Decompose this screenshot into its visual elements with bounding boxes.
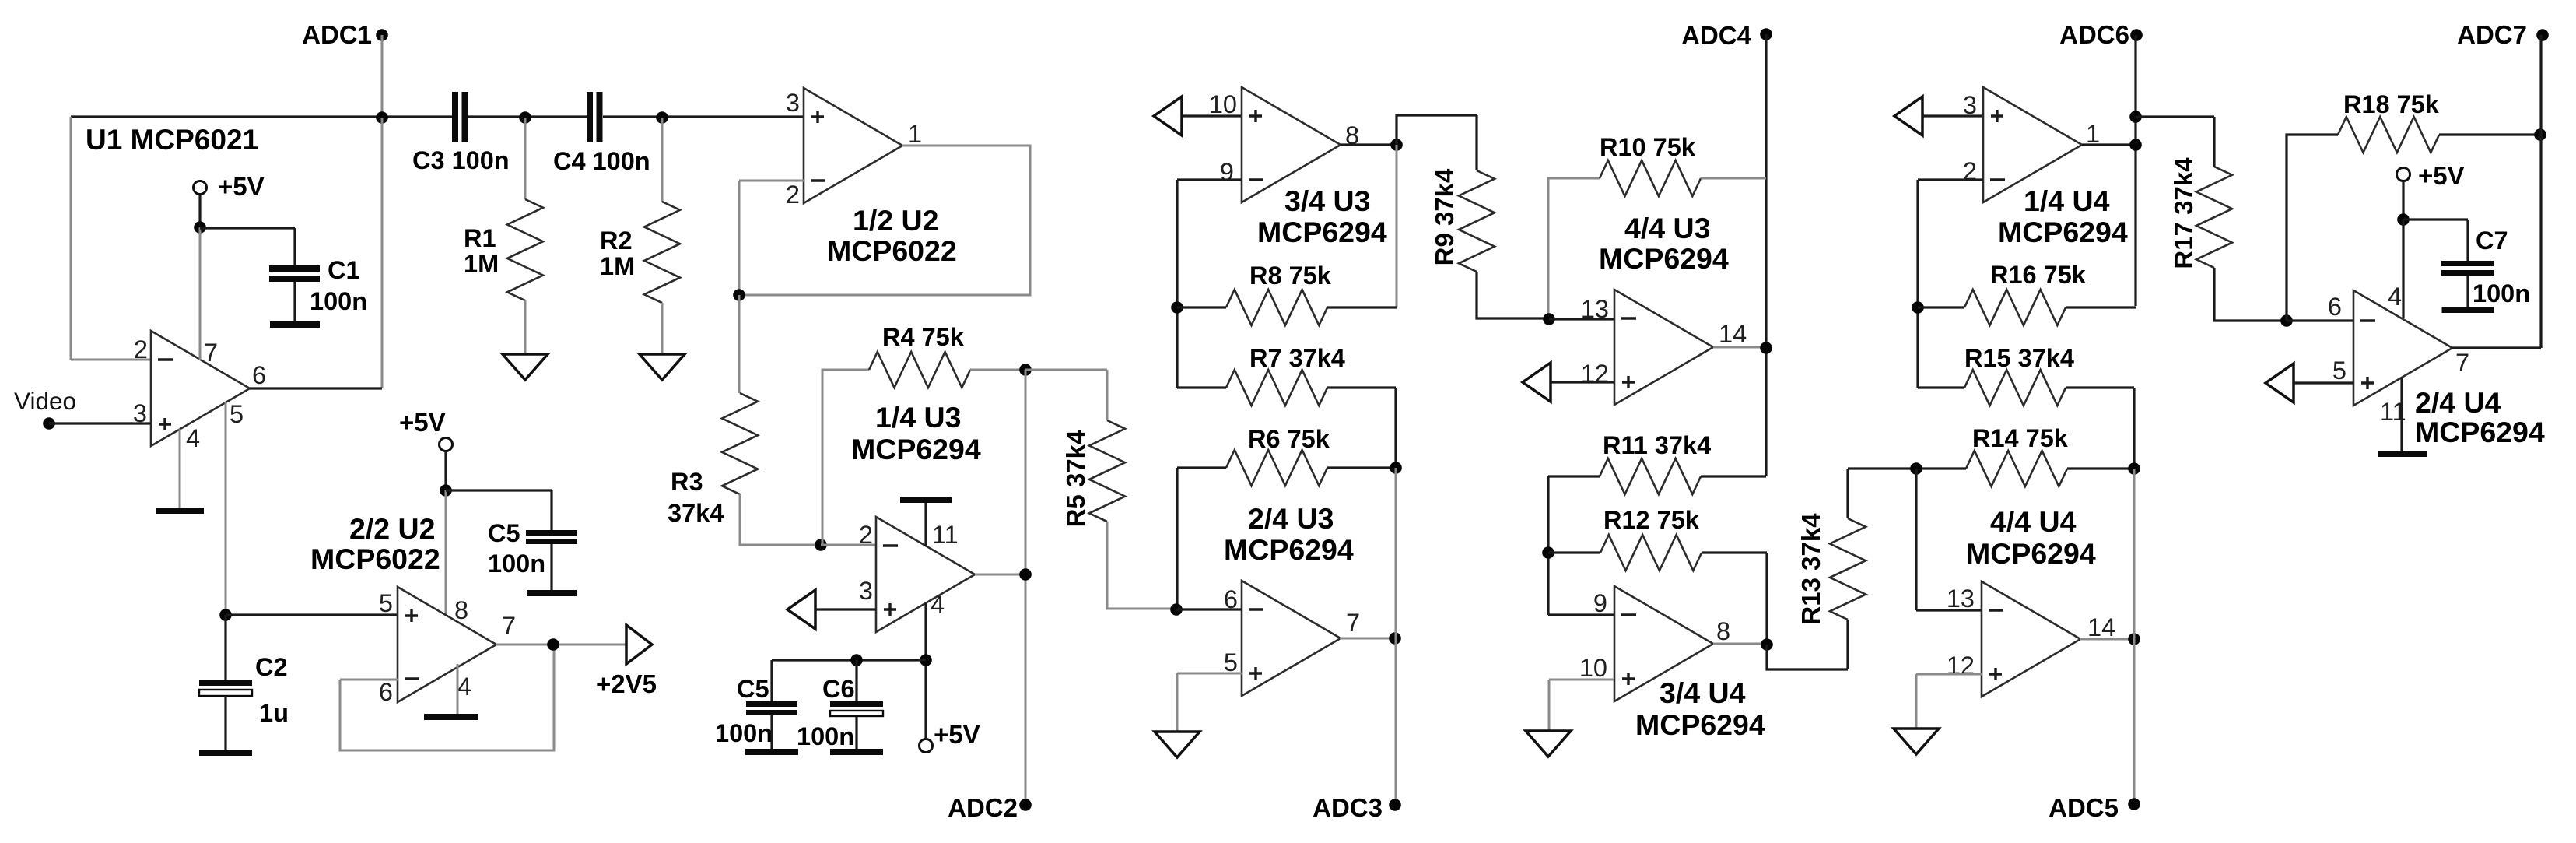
- wire ADC2 bus: [1025, 370, 1027, 805]
- connector +2V5 output: [626, 625, 652, 664]
- resistor R12: [1600, 535, 1702, 571]
- wire ADC6 bus: [2134, 35, 2136, 306]
- wire +5V drop U2b: [444, 451, 447, 490]
- svg-text:1/2 U2: 1/2 U2: [853, 204, 939, 237]
- wire C5b top lead: [770, 660, 773, 701]
- svg-text:3: 3: [859, 577, 873, 605]
- resistor R3: [722, 393, 758, 494]
- svg-text:R8 75k: R8 75k: [1249, 262, 1332, 290]
- ground bar C7: [2442, 307, 2494, 313]
- svg-text:10: 10: [1579, 654, 1607, 682]
- wire R1 bottom lead: [524, 300, 527, 354]
- junction R13/R14/U4d pin13: [1910, 462, 1922, 475]
- U3c minus mark: [1249, 178, 1263, 181]
- svg-text:C5: C5: [737, 675, 769, 703]
- svg-text:ADC2: ADC2: [948, 793, 1018, 822]
- op-amp U4a: [1983, 87, 2082, 202]
- resistor R17: [2196, 167, 2232, 268]
- wire R1 top lead: [524, 118, 527, 199]
- svg-text:100n: 100n: [797, 722, 854, 750]
- wire U3a pin3 input: [815, 608, 876, 610]
- resistor R6: [1226, 450, 1327, 486]
- junction ADC6 bus / R17 branch: [2129, 111, 2142, 123]
- U4c minus mark: [1621, 613, 1636, 616]
- svg-text:ADC6: ADC6: [2059, 20, 2129, 49]
- node ADC7: [2536, 29, 2549, 41]
- ground bar U2b pin4: [424, 714, 478, 720]
- wire R9 bottom lead: [1477, 272, 1549, 318]
- ground bar C2: [199, 750, 252, 756]
- junction U2b output / feedback: [547, 638, 559, 651]
- svg-text:3: 3: [1963, 91, 1977, 119]
- wire R10 right lead: [1701, 177, 1766, 180]
- resistor R16: [1964, 290, 2066, 325]
- wire U4c pin10 to ground: [1548, 680, 1551, 731]
- svg-text:C1: C1: [328, 256, 360, 284]
- svg-text:8: 8: [1716, 617, 1730, 645]
- connector +2V5 at U3d pin12: [1523, 363, 1551, 402]
- wire U2a feedback vertical: [738, 181, 741, 295]
- svg-text:3: 3: [786, 89, 800, 117]
- wire U3b output: [1340, 638, 1396, 640]
- wire U2b pin6 stub: [340, 679, 398, 681]
- svg-text:R16 75k: R16 75k: [1990, 261, 2087, 289]
- svg-text:2: 2: [134, 335, 148, 364]
- wire U3d pin13 input: [1549, 318, 1614, 320]
- wire U1 pin2 input: [71, 359, 151, 361]
- junction +5V / C1: [194, 221, 206, 234]
- junction C6 branch: [850, 654, 863, 666]
- wire U3a output: [975, 574, 1025, 576]
- svg-text:MCP6294: MCP6294: [1257, 216, 1387, 248]
- junction U3a output / ADC2 bus: [1019, 568, 1032, 581]
- wire R6 left lead: [1177, 466, 1226, 469]
- svg-text:100n: 100n: [715, 719, 773, 747]
- U3b plus mark: [1249, 667, 1262, 680]
- svg-text:4/4 U4: 4/4 U4: [1990, 505, 2077, 538]
- svg-text:R1: R1: [464, 224, 496, 252]
- ground bar C1: [270, 321, 320, 328]
- svg-text:R14 75k: R14 75k: [1972, 424, 2069, 452]
- svg-text:R4 75k: R4 75k: [882, 323, 965, 351]
- node ADC1: [376, 29, 388, 41]
- resistor R5: [1089, 420, 1125, 522]
- node ADC2: [1019, 799, 1032, 811]
- svg-text:MCP6294: MCP6294: [851, 433, 981, 465]
- wire ADC3 bus: [1395, 468, 1397, 805]
- capacitor C6: [830, 701, 883, 707]
- U3b minus mark: [1249, 608, 1263, 610]
- wire R11 left lead: [1548, 475, 1600, 477]
- junction U2a feedback / R3: [733, 289, 745, 301]
- svg-text:6: 6: [2328, 293, 2342, 321]
- junction U4c output / R13: [1761, 638, 1773, 651]
- wire C5/C6 feed: [772, 659, 926, 661]
- svg-text:ADC3: ADC3: [1313, 793, 1383, 822]
- junction C4/R2: [656, 111, 668, 124]
- svg-text:C7: C7: [2476, 227, 2508, 255]
- wire U1 feedback right: [381, 118, 384, 388]
- wire R4 left leg: [822, 370, 869, 545]
- wire R18 left leg: [2287, 135, 2338, 321]
- wire ADC7 bus: [2539, 35, 2542, 348]
- wire C6 top lead: [855, 660, 857, 701]
- capacitor C5 at U2b: [526, 530, 577, 536]
- wire to R5 top: [1025, 370, 1107, 420]
- wire U3b pin5 input: [1177, 673, 1242, 675]
- svg-text:14: 14: [1719, 320, 1747, 348]
- wire R14 right lead: [2067, 467, 2134, 469]
- wire R7 left lead: [1177, 386, 1226, 388]
- svg-text:1M: 1M: [464, 250, 499, 278]
- svg-text:+5V: +5V: [2418, 161, 2465, 190]
- op-amp U4b: [2353, 290, 2452, 406]
- svg-text:4: 4: [457, 673, 471, 701]
- svg-text:R10 75k: R10 75k: [1600, 133, 1696, 161]
- U3a plus mark: [884, 603, 896, 616]
- +5V terminal at U1: [194, 181, 207, 195]
- wire U1 feedback left: [70, 117, 72, 360]
- wire R15 left lead: [1918, 386, 1964, 388]
- wire U3c output down to R8: [1396, 145, 1398, 307]
- wire R2 top lead: [661, 118, 664, 202]
- resistor R11: [1600, 458, 1701, 494]
- svg-text:MCP6022: MCP6022: [310, 543, 440, 575]
- resistor R2: [644, 202, 680, 303]
- svg-text:2: 2: [859, 521, 873, 549]
- junction top chain at U1 output column: [376, 111, 388, 124]
- svg-text:MCP6294: MCP6294: [1599, 242, 1729, 275]
- wire R5 bottom lead: [1107, 522, 1176, 609]
- wire U2b pin8 supply: [445, 490, 447, 616]
- wire ADC4 bus: [1765, 34, 1767, 476]
- svg-text:R3: R3: [671, 468, 703, 496]
- resistor R15: [1964, 370, 2066, 406]
- svg-text:ADC1: ADC1: [302, 20, 372, 49]
- svg-text:+5V: +5V: [934, 720, 980, 749]
- junction U3d output / ADC4 bus: [1760, 342, 1772, 354]
- junction R18 / ADC7 bus: [2534, 128, 2546, 141]
- svg-text:ADC7: ADC7: [2457, 20, 2527, 49]
- U3a minus mark: [883, 544, 898, 546]
- op-amp U2b: [398, 587, 496, 702]
- svg-text:11: 11: [932, 521, 959, 549]
- svg-text:C4 100n: C4 100n: [553, 147, 650, 175]
- U4d minus mark: [1989, 609, 2003, 611]
- U4d plus mark: [1989, 668, 2002, 680]
- op-amp U3c: [1242, 87, 1341, 202]
- wire U3d pin12 input: [1551, 381, 1614, 383]
- connector +2V5 at U3a pin3: [787, 590, 815, 629]
- junction pin2 / R16: [1912, 301, 1924, 314]
- svg-text:4: 4: [186, 424, 200, 452]
- capacitor C1: [269, 265, 320, 272]
- wire U4d pin13 vertical: [1915, 469, 1917, 610]
- svg-text:U1 MCP6021: U1 MCP6021: [86, 124, 258, 156]
- wire U3a pin2 input: [821, 544, 876, 546]
- svg-text:3/4 U3: 3/4 U3: [1284, 184, 1371, 217]
- svg-text:12: 12: [1947, 652, 1975, 680]
- ground U4c pin10: [1526, 731, 1571, 757]
- wire U2b output: [496, 644, 626, 646]
- svg-text:ADC5: ADC5: [2049, 793, 2119, 822]
- svg-text:R11 37k4: R11 37k4: [1603, 431, 1711, 459]
- wire U1 output: [250, 387, 382, 389]
- wire U4d pin12 to ground: [1915, 674, 1918, 729]
- junction R6/R7/ADC3 bus: [1390, 462, 1402, 474]
- wire C6 lower lead: [855, 717, 857, 749]
- wire C2 top lead: [224, 615, 226, 680]
- svg-text:1/4 U4: 1/4 U4: [2024, 184, 2110, 217]
- svg-text:MCP6294: MCP6294: [1966, 537, 2096, 570]
- svg-text:7: 7: [204, 339, 218, 367]
- svg-text:1/4 U3: 1/4 U3: [875, 401, 962, 434]
- svg-text:2: 2: [1963, 157, 1977, 185]
- svg-text:MCP6294: MCP6294: [2415, 416, 2545, 448]
- wire R12 right lead: [1702, 553, 1767, 645]
- wire R6 right lead: [1327, 466, 1396, 469]
- svg-text:2/2 U2: 2/2 U2: [349, 512, 436, 545]
- junction +5V / C7: [2397, 213, 2410, 226]
- wire Video to U1 pin3: [49, 422, 151, 424]
- op-amp U1: [151, 331, 250, 446]
- junction R10/R9/U3d pin13: [1543, 313, 1555, 325]
- resistor R10: [1600, 160, 1701, 196]
- junction U3c output: [1390, 139, 1403, 151]
- junction R4 / ADC2 bus / R5: [1019, 364, 1032, 376]
- U2b minus mark: [405, 677, 419, 680]
- wire U2a pin2 input: [739, 180, 804, 182]
- junction ADC6 bus / U4a output: [2129, 139, 2142, 151]
- U4b plus mark: [2361, 377, 2374, 389]
- svg-text:5: 5: [2332, 357, 2346, 385]
- resistor R8: [1226, 290, 1327, 325]
- wire C5 lower lead: [550, 544, 552, 590]
- wire R2 bottom lead: [661, 303, 664, 354]
- wire R18 right lead: [2439, 133, 2541, 135]
- U1 plus mark: [159, 418, 171, 430]
- junction R17/R18/U4b pin6: [2280, 314, 2293, 327]
- wire +5V to C5: [446, 490, 552, 531]
- svg-text:+5V: +5V: [399, 408, 446, 437]
- svg-text:8: 8: [454, 596, 468, 624]
- svg-text:1M: 1M: [600, 252, 635, 280]
- op-amp U4d: [1982, 581, 2080, 697]
- svg-text:C6: C6: [822, 675, 855, 703]
- svg-text:1u: 1u: [259, 699, 289, 727]
- connector +2V5 at U3c pin10: [1154, 97, 1182, 135]
- op-amp U2a: [804, 88, 902, 203]
- svg-text:MCP6294: MCP6294: [1224, 533, 1354, 566]
- svg-text:C3 100n: C3 100n: [412, 146, 510, 174]
- wire U1 pin5 drop: [225, 402, 227, 615]
- wire R17 branch: [2136, 117, 2214, 167]
- junction R11/R12/U4c pin9: [1542, 546, 1554, 559]
- svg-text:100n: 100n: [310, 287, 367, 315]
- wire U3a pin4 supply: [924, 603, 927, 739]
- wire U4b pin6 input: [2287, 319, 2353, 321]
- U3d minus mark: [1621, 317, 1636, 319]
- svg-text:+5V: +5V: [218, 172, 265, 201]
- +5V terminal at U4b: [2397, 168, 2410, 181]
- junction U4d output / ADC5 bus: [2128, 633, 2140, 645]
- wire R13 top lead: [1846, 469, 1849, 518]
- svg-text:4: 4: [2388, 283, 2402, 311]
- resistor R1: [507, 199, 543, 300]
- resistor R4: [869, 352, 970, 388]
- wire R8 left lead: [1177, 306, 1226, 308]
- capacitor C5 at U3a: [746, 701, 797, 707]
- wire C4 to U2a pin3: [603, 115, 804, 118]
- wire U3c pin9 input: [1177, 178, 1242, 181]
- wire U4b pin5 input: [2294, 381, 2353, 384]
- ground bar U4b pin11: [2378, 451, 2427, 457]
- wire R7 right lead: [1327, 388, 1396, 468]
- wire U4a pin2 vertical: [1916, 180, 1919, 388]
- svg-text:2: 2: [786, 181, 800, 209]
- resistor R9: [1459, 170, 1495, 272]
- wire U4b output: [2452, 346, 2541, 349]
- svg-text:R18 75k: R18 75k: [2343, 90, 2440, 118]
- resistor R14: [1966, 451, 2067, 486]
- svg-text:R12 75k: R12 75k: [1603, 506, 1700, 534]
- +5V terminal at U2b: [440, 438, 453, 451]
- U3d plus mark: [1622, 376, 1635, 388]
- supply rail bar U3a pin11: [900, 497, 952, 503]
- svg-text:+2V5: +2V5: [596, 669, 657, 698]
- wire ADC5 bus: [2133, 469, 2136, 804]
- op-amp U3a: [876, 517, 975, 632]
- wire R15 right lead: [2066, 388, 2134, 469]
- svg-text:R15 37k4: R15 37k4: [1964, 344, 2074, 372]
- svg-text:R6 75k: R6 75k: [1248, 425, 1330, 453]
- U3c plus mark: [1249, 110, 1262, 122]
- node Video input: [43, 417, 55, 430]
- wire U3c pin9 vertical: [1176, 180, 1178, 388]
- svg-text:3/4 U4: 3/4 U4: [1660, 676, 1746, 709]
- U4b minus mark: [2360, 319, 2375, 321]
- wire U4b pin4 supply: [2402, 220, 2404, 318]
- wire U2a output loop: [739, 146, 1030, 295]
- wire U3d output: [1713, 346, 1766, 349]
- wire R16 left lead: [1918, 306, 1964, 308]
- wire U4c output to R13 elbow: [1767, 620, 1848, 669]
- capacitor C3: [452, 92, 458, 142]
- junction R3/R4/U3a pin2: [815, 539, 827, 551]
- wire U4c output: [1713, 643, 1767, 645]
- svg-text:4/4 U3: 4/4 U3: [1624, 212, 1711, 244]
- resistor R18: [2338, 117, 2439, 153]
- wire U4d pin12 input: [1916, 673, 1982, 676]
- svg-text:2/4 U3: 2/4 U3: [1248, 502, 1334, 535]
- wire U4b pin11: [2400, 378, 2403, 451]
- wire R11 right lead: [1701, 475, 1766, 477]
- resistor R7: [1226, 370, 1327, 406]
- wire C3 to C4: [468, 115, 587, 118]
- wire U4d pin13 input: [1916, 609, 1982, 611]
- svg-text:14: 14: [2087, 613, 2115, 641]
- svg-text:7: 7: [502, 612, 516, 640]
- capacitor C7: [2441, 261, 2494, 266]
- svg-text:6: 6: [252, 361, 266, 389]
- svg-text:100n: 100n: [488, 550, 545, 578]
- wire U4c pin9 input: [1548, 613, 1614, 616]
- svg-text:13: 13: [1581, 295, 1609, 323]
- wire C5b lower lead: [770, 715, 773, 749]
- svg-text:R17 37k4: R17 37k4: [2169, 157, 2198, 269]
- wire R11 left leg: [1547, 476, 1549, 615]
- capacitor C2: [199, 680, 252, 686]
- wire C2 lower lead: [224, 696, 226, 750]
- connector +2V5 at U4b pin5: [2266, 364, 2294, 402]
- ground R2: [640, 354, 685, 380]
- svg-text:R7 37k4: R7 37k4: [1249, 344, 1345, 372]
- wire R17 bottom lead: [2214, 268, 2287, 321]
- wire U3b pin6 input: [1176, 608, 1242, 610]
- wire R3 top lead: [738, 295, 741, 393]
- svg-text:Video: Video: [14, 387, 76, 415]
- junction R14/R15/ADC5 bus: [2128, 462, 2140, 475]
- node ADC6: [2130, 29, 2143, 41]
- node ADC3: [1389, 799, 1401, 811]
- ground bar C6: [830, 749, 883, 755]
- svg-text:R5 37k4: R5 37k4: [1061, 430, 1090, 527]
- svg-text:5: 5: [230, 400, 244, 428]
- svg-text:ADC4: ADC4: [1681, 21, 1751, 50]
- svg-text:5: 5: [379, 589, 393, 617]
- op-amp U4c: [1614, 586, 1713, 701]
- wire R12 left lead: [1548, 551, 1600, 553]
- svg-text:7: 7: [1346, 609, 1360, 637]
- wire U4a pin2 input: [1918, 178, 1983, 181]
- wire R13 to R14: [1848, 467, 1966, 469]
- wire R3 bottom lead: [740, 494, 821, 545]
- wire +5V drop U4b: [2402, 181, 2404, 220]
- svg-text:37k4: 37k4: [668, 499, 724, 527]
- wire +5V drop to junction: [198, 195, 201, 227]
- +5V terminal at U3a: [920, 739, 933, 753]
- wire U3c output to R9: [1397, 115, 1477, 170]
- junction U3b output / ADC3 bus: [1389, 632, 1401, 645]
- U2b plus mark: [405, 609, 418, 622]
- op-amp U3d: [1614, 290, 1713, 405]
- svg-text:C2: C2: [255, 653, 288, 681]
- wire top chain U1 feedback top: [71, 115, 452, 118]
- wire U2b pin4: [457, 664, 459, 715]
- node ADC4: [1760, 28, 1772, 40]
- svg-text:1: 1: [908, 120, 922, 148]
- U4a plus mark: [1991, 110, 2003, 122]
- U2a minus mark: [811, 179, 825, 181]
- wire R4 right lead: [970, 369, 1025, 371]
- wire R10 left leg: [1548, 178, 1600, 321]
- ground U3b pin5: [1155, 732, 1200, 757]
- node ADC5: [2128, 798, 2140, 810]
- wire U3a pin11: [924, 503, 927, 546]
- svg-text:100n: 100n: [2473, 279, 2530, 307]
- wire U4c pin10 input: [1549, 679, 1614, 681]
- svg-text:R2: R2: [600, 227, 633, 255]
- resistor R13: [1830, 518, 1866, 620]
- wire +5V to C7: [2403, 220, 2468, 262]
- svg-text:R9 37k4: R9 37k4: [1430, 168, 1459, 265]
- wire U4d output: [2080, 638, 2134, 641]
- wire to U2b pin5: [226, 613, 398, 616]
- svg-text:MCP6022: MCP6022: [827, 234, 957, 267]
- svg-text:7: 7: [2455, 349, 2469, 377]
- wire R6 left vertical to pin6: [1176, 468, 1178, 609]
- wire U4a pin3 input: [1922, 114, 1983, 117]
